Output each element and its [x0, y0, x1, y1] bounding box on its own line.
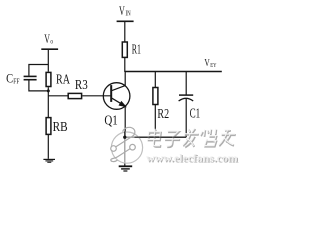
capacitor CFF — [24, 76, 37, 79]
node VIN terminal label — [119, 3, 131, 18]
wire RA bottom to RB top — [47, 87, 49, 117]
svg-text:o: o — [50, 37, 53, 46]
svg-text:EY: EY — [210, 62, 217, 69]
wire emitter down — [124, 106, 126, 137]
wire base branch to R3 — [48, 95, 67, 97]
svg-text:V: V — [119, 3, 125, 18]
junction emitter rail — [123, 136, 126, 139]
watermark logo circle — [111, 127, 143, 163]
wire Vo to RA/CFF top — [47, 50, 49, 72]
svg-text:V: V — [44, 31, 50, 46]
resistor RB — [46, 118, 51, 135]
svg-text:IN: IN — [126, 8, 132, 17]
svg-text:RB: RB — [53, 120, 68, 135]
svg-text:Q1: Q1 — [104, 114, 117, 129]
svg-text:C: C — [6, 71, 13, 86]
svg-text:C1: C1 — [190, 106, 201, 121]
wire R2 top — [154, 72, 156, 88]
node Vo terminal bar — [41, 48, 58, 50]
node VEY label — [204, 58, 216, 69]
junction CFF bottom — [47, 89, 50, 92]
wire R2 bottom — [154, 105, 156, 138]
svg-text:R3: R3 — [75, 78, 88, 93]
wire CFF bottom branch — [29, 80, 48, 91]
wire ground stem center — [124, 137, 126, 165]
wire bottom rail — [125, 136, 186, 138]
resistor RA — [46, 72, 51, 86]
svg-text:RA: RA — [56, 72, 71, 87]
svg-text:FF: FF — [13, 77, 19, 86]
wire C1 bottom — [185, 99, 187, 138]
transistor Q1 emitter with arrow — [112, 98, 126, 106]
transistor Q1 base bar — [110, 85, 112, 102]
watermark url text — [146, 152, 239, 165]
wire VIN to R1 — [124, 22, 126, 42]
wire RB to ground — [47, 135, 49, 159]
node VIN terminal bar — [117, 20, 134, 22]
ground center — [119, 166, 133, 171]
wire C1 top — [185, 72, 187, 95]
junction emitter rail top copy — [123, 132, 126, 139]
svg-text:V: V — [204, 58, 210, 69]
svg-text:R2: R2 — [157, 107, 169, 122]
capacitor C1 — [179, 95, 194, 101]
node Vo terminal label — [44, 31, 53, 46]
wire collector — [112, 72, 125, 91]
wire CFF top branch — [29, 65, 48, 76]
transistor Q1 circle — [103, 83, 130, 110]
wire output rail VEY — [125, 71, 222, 73]
label CFF — [6, 71, 19, 86]
resistor R2 — [153, 88, 158, 105]
wire R3 to base — [82, 95, 111, 97]
ground left — [43, 159, 55, 162]
resistor R1 — [122, 42, 127, 57]
svg-text:R1: R1 — [132, 42, 141, 57]
wire R1 to collector node — [124, 57, 126, 72]
watermark chinese text — [147, 128, 237, 147]
resistor R3 — [68, 93, 81, 98]
wire bottom rail right segment top copy — [135, 136, 187, 138]
svg-text:www.elecfans.com: www.elecfans.com — [146, 152, 238, 164]
